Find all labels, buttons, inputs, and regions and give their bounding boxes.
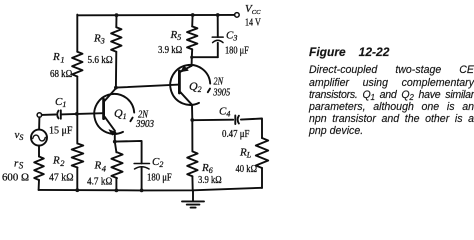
svg-text:C4: C4 [219, 106, 230, 119]
wire RL bottom to ground rail [261, 168, 263, 188]
wire R4 bottom to ground rail [115, 178, 117, 190]
wire bottom ground rail [39, 188, 262, 191]
wire vS to rS [38, 146, 40, 157]
resistor rS [34, 157, 44, 181]
capacitor C3 [212, 37, 223, 43]
svg-text:3905: 3905 [212, 88, 230, 99]
svg-text:R6: R6 [201, 162, 213, 175]
wire Q1 emitter down [114, 131, 116, 142]
transistor Q1 emitter lead [105, 117, 115, 131]
svg-text:R1: R1 [52, 51, 65, 64]
transistor Q2 emitter lead [180, 66, 191, 72]
wire Q1 collector node to Q2 base [116, 85, 179, 88]
svg-text:3.9 kΩ: 3.9 kΩ [158, 45, 182, 56]
wire R5/C3 bottom link [192, 56, 218, 58]
transistor Q1 circle [94, 94, 134, 134]
resistor RL [256, 138, 268, 168]
junction node R3/rail [115, 13, 119, 17]
transistor Q2 base bar [178, 71, 181, 93]
wire source branch (terminal to vS) [38, 117, 40, 129]
junction node R5/Q2 emitter [190, 56, 193, 59]
svg-text:R2: R2 [52, 154, 65, 168]
junction node input/R1/R2 [75, 112, 79, 116]
junction node Q1 collector [114, 86, 118, 90]
resistor R3 [111, 27, 121, 52]
svg-text:180 μF: 180 μF [147, 172, 172, 183]
wire C2 bottom to ground rail [141, 167, 143, 190]
svg-text:47 kΩ: 47 kΩ [49, 172, 74, 183]
svg-text:rS: rS [14, 157, 24, 170]
wire C3 bottom [217, 43, 219, 57]
source vS [31, 130, 47, 146]
svg-text:R3: R3 [93, 33, 105, 46]
transistor Q1 circle tick [130, 118, 132, 122]
resistor R6 [187, 151, 197, 176]
junction node C3/rail [216, 13, 220, 17]
terminal input [37, 113, 42, 118]
svg-text:vS: vS [15, 129, 24, 142]
capacitor C4 [235, 115, 239, 124]
wire Q1 emitter node to C2 [115, 141, 142, 164]
svg-text:15 μF: 15 μF [49, 125, 73, 136]
resistor R1 [72, 52, 82, 77]
svg-text:Q2: Q2 [189, 79, 202, 94]
junction node R4/rail [115, 189, 119, 193]
wire R1 bottom to input node [76, 77, 78, 114]
resistor R2 [72, 144, 84, 168]
wire R6 bottom to ground rail [191, 176, 193, 190]
svg-text:14 V: 14 V [245, 18, 261, 29]
junction node R5/rail [191, 13, 195, 17]
transistor Q1 base bar [102, 99, 105, 118]
wire Q2 emitter up [191, 57, 193, 66]
capacitor C2 [134, 164, 149, 170]
wire R4 top [115, 142, 117, 153]
wire C3 top (rail to C3) [217, 15, 219, 37]
svg-text:C1: C1 [55, 96, 66, 109]
transistor Q2 emitter arrow [181, 66, 188, 72]
svg-text:180 μF: 180 μF [225, 46, 249, 57]
junction node C2/rail [140, 189, 144, 193]
wire rS bottom to ground rail [38, 180, 40, 190]
wire Q2 collector down [191, 105, 193, 120]
caption body [309, 64, 474, 76]
transistor Q2 collector lead [180, 92, 192, 105]
svg-text:3903: 3903 [135, 119, 154, 130]
wire R5 bottom [191, 49, 193, 57]
wire R1 top (rail to R1) [76, 15, 78, 52]
svg-text:2N: 2N [214, 77, 225, 88]
resistor R4 [111, 152, 122, 178]
resistor R5 [187, 26, 197, 49]
svg-text:C3: C3 [226, 29, 237, 42]
svg-text:3.9 kΩ: 3.9 kΩ [198, 175, 222, 186]
transistor Q2 circle [170, 65, 210, 105]
wire R2 top [76, 114, 78, 144]
svg-text:5.6 kΩ: 5.6 kΩ [88, 55, 113, 66]
svg-text:0.47 μF: 0.47 μF [222, 129, 250, 140]
wire R5 top (rail to R5) [191, 15, 193, 26]
transistor Q1 collector lead [105, 88, 116, 101]
wire input terminal to C1 [42, 114, 56, 116]
wire top supply rail [77, 14, 234, 16]
svg-text:4.7 kΩ: 4.7 kΩ [87, 177, 112, 188]
svg-text:R5: R5 [170, 29, 182, 42]
caption figure title [309, 46, 474, 58]
wire R2 bottom to ground rail [76, 168, 78, 191]
junction node R2/rail [75, 188, 79, 192]
wire R3 bottom to Q1 collector node [115, 52, 117, 88]
transistor Q1 emitter arrow [109, 130, 116, 135]
junction node Q2 collector [190, 118, 194, 122]
svg-text:40 kΩ: 40 kΩ [236, 164, 258, 175]
wire C1 to Q1 base [61, 113, 104, 114]
terminal Vcc [235, 13, 240, 18]
capacitor C1 [57, 110, 61, 118]
junction node Q1 emitter [113, 140, 117, 144]
svg-text:VCC: VCC [245, 3, 261, 16]
svg-text:C2: C2 [152, 156, 163, 169]
svg-text:R4: R4 [94, 160, 107, 174]
svg-text:68 kΩ: 68 kΩ [50, 69, 72, 80]
wire R6 top [191, 120, 193, 151]
wire R3 top (rail to R3) [115, 15, 117, 27]
svg-text:RL: RL [239, 147, 252, 160]
wire C4 to RL top [241, 119, 262, 139]
ground [192, 190, 194, 201]
svg-text:600 Ω: 600 Ω [2, 172, 29, 183]
wire Q2 collector node to C4 [192, 119, 233, 122]
transistor Q2 circle tick [208, 89, 210, 93]
svg-text:Q1: Q1 [114, 106, 127, 121]
